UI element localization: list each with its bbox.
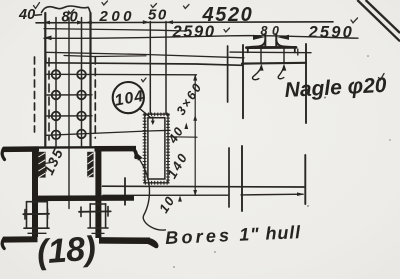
rivet row line 2: [47, 94, 92, 96]
rivet D2: [77, 130, 86, 139]
rivet B1: [52, 91, 61, 100]
foot left: [3, 236, 38, 242]
rivet C1: [52, 112, 61, 121]
rail base plate: [247, 46, 297, 49]
flange right tip hook: [133, 149, 136, 158]
hidden dashed line right of strap: [94, 57, 96, 138]
svg-text:2590: 2590: [308, 24, 355, 42]
hatched plate right: [87, 152, 93, 177]
foot right: [99, 237, 150, 244]
bolt cross right: [79, 210, 111, 212]
hidden dashed seam line x49: [48, 58, 50, 140]
long leader from Bores to flange tip: [137, 155, 167, 230]
rivet C2: [77, 112, 86, 121]
rivet A2: [77, 70, 86, 79]
centerline x69: [68, 18, 70, 209]
channel inner rectangle: [148, 118, 165, 179]
svg-text:(18): (18): [36, 230, 97, 272]
wire: deck line C right: [230, 51, 311, 54]
frame line x227 upper: [227, 46, 229, 102]
dimension line A (top): [36, 22, 333, 23]
foot left tip hook: [2, 239, 4, 249]
tick near 135: [44, 162, 53, 163]
frame stub x125: [124, 178, 126, 205]
nagle arrow right: [282, 64, 287, 71]
chair vertical left: [247, 48, 249, 53]
rivet column line x56: [55, 18, 57, 147]
nagle arrow left: [259, 64, 264, 71]
rivet D1: [52, 131, 61, 140]
wire: rivet row line G long: [46, 130, 170, 135]
corner diagonal line 1: [357, 0, 400, 41]
leader from balloon: [140, 109, 152, 119]
leader arrowhead at flange tip: [136, 152, 143, 161]
vertical dim arrow mid: [193, 115, 197, 121]
rail flange flare left: [250, 41, 265, 48]
svg-text:50: 50: [148, 7, 168, 24]
rivet row line 3: [47, 115, 92, 117]
svg-text:200: 200: [99, 8, 136, 25]
vertical dim arrow 10: [178, 196, 182, 202]
rivet B2: [77, 91, 86, 100]
web left: [32, 147, 38, 238]
svg-text:80: 80: [62, 10, 78, 26]
chair stub x297: [297, 49, 299, 55]
break squiggle over strap: [42, 6, 91, 13]
dim arrow 40 left: [43, 21, 50, 25]
svg-text:80: 80: [261, 24, 284, 38]
dim arrow 200 left: [85, 21, 92, 25]
girder top flange right angle: [95, 146, 137, 152]
rail web left line: [264, 34, 266, 47]
dim arrow rail 80 right: [278, 35, 290, 40]
nagle bolt left: [260, 48, 262, 64]
frame line x227 lower: [228, 148, 230, 207]
wire: long deck line L2: [44, 29, 185, 31]
svg-text:2590: 2590: [172, 23, 216, 41]
dim arrow 50 right boundary: [166, 20, 173, 24]
nagle bolt right: [283, 48, 285, 64]
rail flange flare right: [276, 41, 291, 48]
deck line F with break: [103, 194, 303, 195]
rail web right line: [275, 34, 277, 47]
leader arrowhead inside channel: [151, 121, 155, 125]
dim arrow rail 80 left: [253, 35, 264, 40]
nagle leader curl left: [253, 66, 262, 80]
corner diagonal line 2: [366, 0, 400, 33]
girder top flange left angle: [3, 146, 39, 152]
hatched plate left: [38, 152, 46, 178]
deck line E: [103, 185, 305, 188]
thin channel right: [79, 204, 111, 234]
wire: line G right stub: [170, 136, 197, 138]
leader arrow shaft into channel: [152, 117, 154, 122]
frame line x306 upper: [305, 44, 307, 123]
frame line x242 upper: [242, 45, 244, 118]
flange left tip hook: [2, 149, 4, 160]
wire: deck line C left: [45, 52, 244, 58]
cross bar: [33, 195, 134, 201]
vertical dim arrow bottom: [193, 190, 197, 196]
vertical dimension line x195: [194, 75, 196, 197]
hidden dashed line left of strap: [34, 57, 36, 132]
svg-text:40: 40: [18, 7, 35, 23]
channel doubler serrated outline: [143, 113, 170, 185]
rivet A1: [52, 70, 61, 79]
frame line x238 lower: [241, 146, 243, 211]
wire: jog at left end of deck lines: [45, 53, 47, 63]
bolt cross left: [23, 213, 49, 215]
strap edge line x90: [89, 13, 91, 146]
deck line between angles: [39, 146, 95, 149]
wire: deck line D right: [242, 62, 306, 65]
wire: deck line D left: [46, 63, 242, 66]
frame line x150: [149, 22, 151, 114]
foot right club tip: [145, 238, 158, 249]
balloon circle 104: [113, 82, 144, 113]
dim arrow 2590 left end: [44, 36, 52, 41]
rivet column line x81: [81, 18, 83, 147]
chair vertical right: [294, 48, 296, 53]
wire: deck seam line C54: [64, 56, 146, 57]
thin channel left: [23, 202, 49, 234]
stray specks: [173, 55, 390, 268]
web right: [95, 147, 101, 239]
vertical dim arrow 40: [184, 123, 188, 130]
nagle leader curl right: [278, 66, 284, 79]
wire: dimension line B (2590 level): [44, 36, 358, 39]
vertical dim arrow top: [193, 74, 197, 81]
dash after 40 label: [35, 14, 42, 17]
arrow on line F right end: [297, 192, 305, 196]
dim arrow 80 right: [77, 21, 84, 25]
rivet row line 1: [47, 73, 197, 76]
check marks: [34, 1, 385, 82]
frame line x166: [165, 22, 167, 114]
dim arrow 200 right: [143, 20, 150, 24]
frame line x305 lower: [304, 155, 306, 204]
rail detail group: [247, 34, 298, 80]
strap edge line x45: [44, 13, 46, 146]
